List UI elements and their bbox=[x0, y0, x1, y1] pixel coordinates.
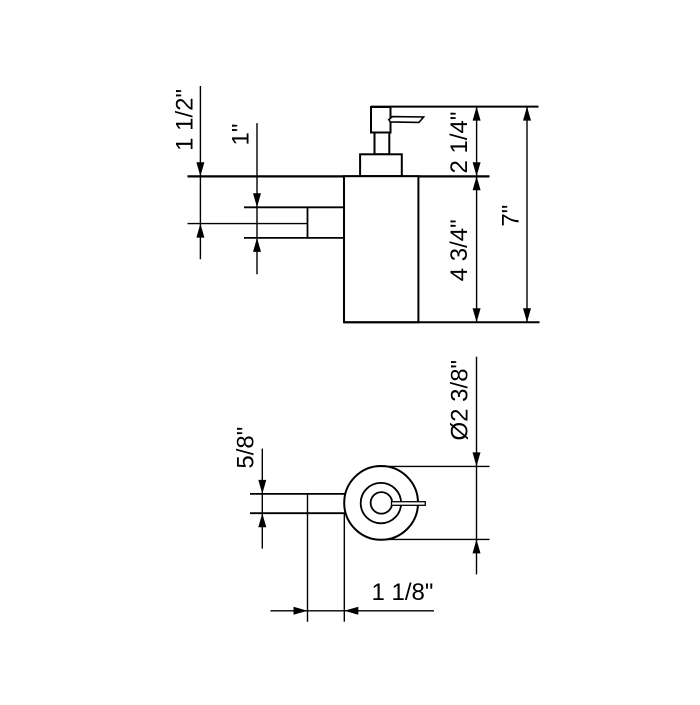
pump collar circle bbox=[361, 483, 401, 523]
body outer circle bbox=[344, 466, 418, 540]
svg-text:1 1/2": 1 1/2" bbox=[171, 89, 198, 151]
arrow down at arm top bbox=[258, 480, 266, 494]
dimension 1" line bbox=[256, 123, 258, 274]
arrow up at top line bbox=[473, 107, 481, 121]
nozzle pin (top view) bbox=[392, 502, 426, 506]
svg-text:1 1/8": 1 1/8" bbox=[372, 579, 434, 606]
arrow up at centerline bbox=[196, 224, 204, 238]
dimension 5/8" line bbox=[261, 449, 263, 549]
arm centerline extension bbox=[188, 223, 308, 225]
dimension 1 1/8" line bbox=[270, 610, 434, 612]
wall line / body top extension line bbox=[188, 175, 490, 177]
dimension 1 1/2" line bbox=[199, 86, 201, 259]
arrow left bbox=[344, 607, 358, 615]
dimension 7" line bbox=[526, 107, 528, 323]
circle top extension line bbox=[376, 465, 490, 467]
arrow right bbox=[294, 607, 308, 615]
arrow down at bottom bbox=[523, 308, 531, 322]
svg-text:2 1/4": 2 1/4" bbox=[446, 112, 473, 174]
svg-text:5/8": 5/8" bbox=[233, 427, 260, 469]
pump stem circle bbox=[371, 492, 393, 514]
pump collar bbox=[360, 154, 402, 176]
arrow down at arm top bbox=[253, 193, 261, 207]
wire top extension line (pump head top, extended right) bbox=[371, 106, 539, 108]
pump head bbox=[371, 107, 391, 133]
arrow down at circle top bbox=[473, 452, 481, 466]
arrow down at wall line bbox=[473, 162, 481, 176]
circle bottom extension line bbox=[385, 538, 490, 540]
dimension 2 1/4" and 4 3/4" shared line bbox=[476, 107, 478, 323]
arm top line (top view) bbox=[250, 493, 345, 495]
arrow down at wall line bbox=[196, 162, 204, 176]
arrow up at arm bottom bbox=[258, 513, 266, 527]
arm top line (side view) bbox=[244, 206, 344, 208]
svg-text:4 3/4": 4 3/4" bbox=[446, 219, 473, 281]
extension line left for 1 1/8" bbox=[307, 494, 309, 622]
arrow up below wall line bbox=[473, 176, 481, 190]
body (side view) bbox=[344, 176, 418, 322]
pump stem bbox=[375, 133, 390, 155]
arm bottom line (top view) bbox=[250, 512, 346, 514]
dimension Ø2 3/8" line bbox=[476, 357, 478, 575]
body bottom extension line bbox=[344, 321, 540, 323]
arm divider vertical bbox=[307, 207, 309, 238]
svg-text:7": 7" bbox=[497, 205, 524, 227]
arrow up at arm bottom bbox=[253, 238, 261, 252]
arrow down at body bottom bbox=[473, 308, 481, 322]
extension line right for 1 1/8" bbox=[343, 513, 345, 622]
svg-text:Ø2 3/8": Ø2 3/8" bbox=[447, 360, 474, 441]
arrow up at top bbox=[523, 107, 531, 121]
arm bottom line (side view) bbox=[244, 237, 344, 239]
svg-text:1": 1" bbox=[227, 124, 254, 146]
arrow up at circle bottom bbox=[473, 539, 481, 553]
pump nozzle spout bbox=[389, 117, 424, 123]
